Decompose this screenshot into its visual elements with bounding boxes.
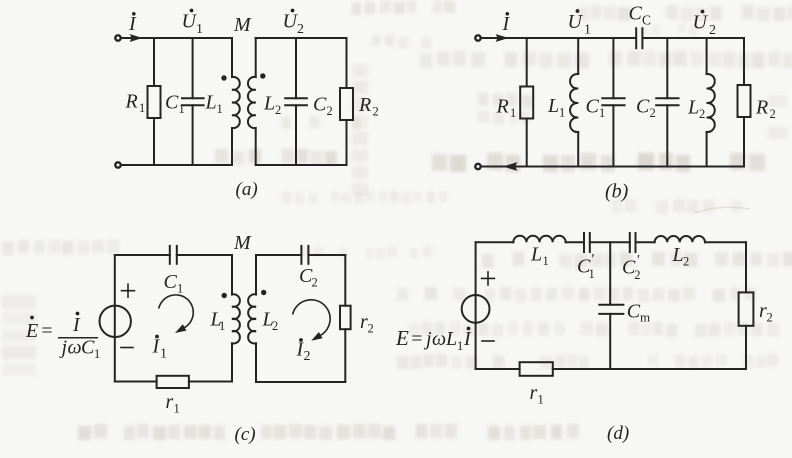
svg-text:M: M	[233, 232, 252, 254]
svg-text:2: 2	[304, 349, 311, 364]
svg-text:1: 1	[174, 402, 180, 416]
inductor L1 (a)	[231, 38, 233, 77]
wire top (a) secondary	[256, 37, 347, 39]
svg-text:=: =	[410, 328, 424, 350]
svg-text:2: 2	[373, 105, 379, 119]
svg-text:I: I	[128, 13, 137, 35]
svg-text:C: C	[164, 271, 178, 293]
wire top (b) left of CC	[481, 37, 636, 39]
inductor L2 (d)	[655, 236, 705, 242]
svg-text:2: 2	[770, 107, 776, 121]
svg-text:1: 1	[217, 102, 223, 116]
svg-text:2: 2	[272, 319, 278, 333]
svg-text:R: R	[125, 91, 138, 113]
svg-text:2: 2	[327, 104, 333, 118]
svg-text:I: I	[502, 13, 511, 35]
svg-text:1: 1	[599, 106, 605, 120]
capacitor C'2 (d)	[629, 233, 631, 252]
svg-text:L: L	[530, 244, 542, 266]
wire top right loop (c)	[256, 254, 301, 256]
resistor R2 (b)	[743, 38, 745, 85]
resistor R1 (a)	[153, 38, 155, 86]
svg-text:R: R	[496, 96, 509, 118]
svg-text:L: L	[687, 97, 699, 119]
wire bottom (a) secondary	[256, 164, 347, 166]
svg-text:R: R	[358, 94, 371, 116]
inductor L1 (b)	[577, 38, 579, 74]
svg-text:1: 1	[559, 106, 565, 120]
capacitor C1 (a)	[192, 38, 194, 98]
wire (d)	[636, 241, 655, 243]
bottom wire + resistor r1 (d)	[476, 368, 520, 370]
svg-text:1: 1	[538, 393, 544, 407]
capacitor C2 (a)	[295, 38, 297, 98]
svg-text:C: C	[81, 337, 95, 359]
resistor R2 (a)	[346, 38, 348, 88]
svg-text:E: E	[395, 326, 409, 350]
svg-text:1: 1	[584, 23, 591, 38]
loop arrow I2 (c)	[293, 300, 330, 335]
svg-text:C: C	[629, 3, 643, 25]
svg-text:2: 2	[650, 106, 656, 120]
plus sign (d)	[482, 272, 495, 285]
svg-text:2: 2	[767, 311, 773, 325]
source circle (c)	[100, 306, 131, 337]
svg-text:ω: ω	[68, 337, 82, 359]
capacitor C'1 (d)	[583, 233, 585, 252]
svg-text:2: 2	[368, 322, 374, 336]
svg-text:1: 1	[510, 106, 516, 120]
minus sign (d)	[482, 340, 494, 342]
left wire with source E (d)	[475, 242, 477, 369]
svg-text:U: U	[568, 11, 584, 33]
faint pencil arc (decorative)	[694, 207, 750, 213]
loop arrow I1 (c)	[159, 295, 193, 328]
capacitor C1 (c)	[169, 246, 171, 264]
capacitor C1 (b)	[612, 38, 614, 98]
svg-text:1: 1	[219, 319, 225, 333]
wire (d) top right	[705, 241, 746, 243]
bottom wire right loop (c)	[256, 381, 345, 383]
svg-text:U: U	[693, 12, 709, 34]
middle branch capacitor Cm (d)	[609, 242, 611, 304]
svg-text:j: j	[423, 328, 432, 350]
svg-text:C: C	[642, 13, 651, 28]
svg-text:1: 1	[196, 22, 203, 37]
capacitor C2 (c)	[300, 246, 302, 264]
wire top (b) right of CC	[642, 37, 744, 39]
svg-text:I: I	[463, 328, 472, 350]
dot L1 (a)	[221, 75, 226, 80]
svg-text:2: 2	[297, 22, 304, 37]
source circle (d)	[462, 295, 490, 323]
wire top-left loop (c)	[115, 254, 170, 256]
right wire + resistor r2 (d)	[745, 242, 747, 292]
terminal top-left (b)	[475, 35, 480, 40]
svg-text:(b): (b)	[605, 181, 629, 203]
svg-text:2: 2	[699, 107, 705, 121]
wire bottom (a) primary	[121, 164, 232, 166]
inductor L1 (d)	[513, 236, 565, 243]
svg-text:m: m	[640, 310, 650, 325]
svg-text:(d): (d)	[607, 423, 629, 444]
inductor L2 (c)	[255, 255, 257, 295]
plus sign (c)	[122, 284, 135, 297]
svg-text:′: ′	[636, 253, 640, 269]
svg-text:r: r	[166, 391, 174, 413]
wire top (a) primary	[121, 37, 232, 39]
wire (d) node	[590, 241, 630, 243]
svg-text:L: L	[205, 92, 217, 114]
svg-text:1: 1	[457, 339, 463, 353]
dot L1 (c)	[222, 293, 227, 298]
svg-text:I: I	[72, 314, 81, 336]
svg-text:r: r	[530, 382, 538, 404]
svg-text:R: R	[755, 97, 768, 119]
svg-text:j: j	[59, 337, 68, 359]
terminal bottom-left (a)	[115, 162, 120, 167]
terminal bottom-left (b)	[475, 164, 480, 169]
svg-text:2: 2	[634, 268, 640, 282]
svg-text:(c): (c)	[235, 424, 256, 445]
bottom wire + resistor r1 (c)	[115, 381, 157, 383]
svg-text:1: 1	[94, 347, 100, 361]
svg-text:1: 1	[177, 282, 183, 296]
svg-text:1: 1	[139, 101, 145, 115]
svg-text:C: C	[586, 96, 600, 118]
coupling capacitor CC (b)	[635, 28, 637, 48]
resistor r2 (c)	[344, 255, 346, 306]
svg-text:L: L	[445, 328, 457, 350]
return arrow (b)	[503, 162, 518, 171]
svg-text:C: C	[636, 96, 650, 118]
dot L2 (a)	[260, 73, 265, 78]
svg-text:2: 2	[312, 276, 318, 290]
svg-text:M: M	[233, 14, 252, 36]
svg-text:1: 1	[589, 267, 595, 281]
svg-text:C: C	[165, 92, 179, 114]
capacitor C2 (b)	[666, 38, 668, 98]
svg-text:=: =	[40, 320, 54, 342]
terminal top-left (a)	[115, 35, 120, 40]
svg-text:L: L	[547, 95, 559, 117]
svg-text:1: 1	[543, 254, 549, 268]
left wire with source E (c)	[114, 255, 116, 382]
current arrow I (b)	[481, 37, 495, 39]
wire bottom (b)	[481, 166, 744, 168]
svg-text:ω: ω	[432, 328, 446, 350]
svg-text:(a): (a)	[236, 179, 258, 200]
svg-text:L: L	[672, 244, 684, 266]
svg-text:1: 1	[160, 347, 167, 362]
wire (d)	[566, 241, 584, 243]
svg-text:′: ′	[591, 252, 595, 268]
svg-text:C: C	[627, 301, 641, 323]
svg-text:C: C	[313, 94, 327, 116]
minus sign (c)	[121, 347, 133, 349]
dot L2 (c)	[261, 290, 266, 295]
svg-text:1: 1	[179, 102, 185, 116]
top wire left (d)	[476, 241, 514, 243]
svg-text:L: L	[263, 93, 275, 115]
svg-text:2: 2	[683, 255, 689, 269]
svg-text:2: 2	[709, 23, 716, 38]
svg-text:E: E	[25, 320, 38, 342]
resistor R1 (b)	[526, 38, 528, 87]
current arrow I (a)	[121, 37, 132, 39]
inductor L2 (b)	[706, 38, 708, 74]
inductor L1 (c)	[231, 255, 233, 295]
inductor L2 (a)	[255, 38, 257, 77]
svg-text:2: 2	[275, 103, 281, 117]
